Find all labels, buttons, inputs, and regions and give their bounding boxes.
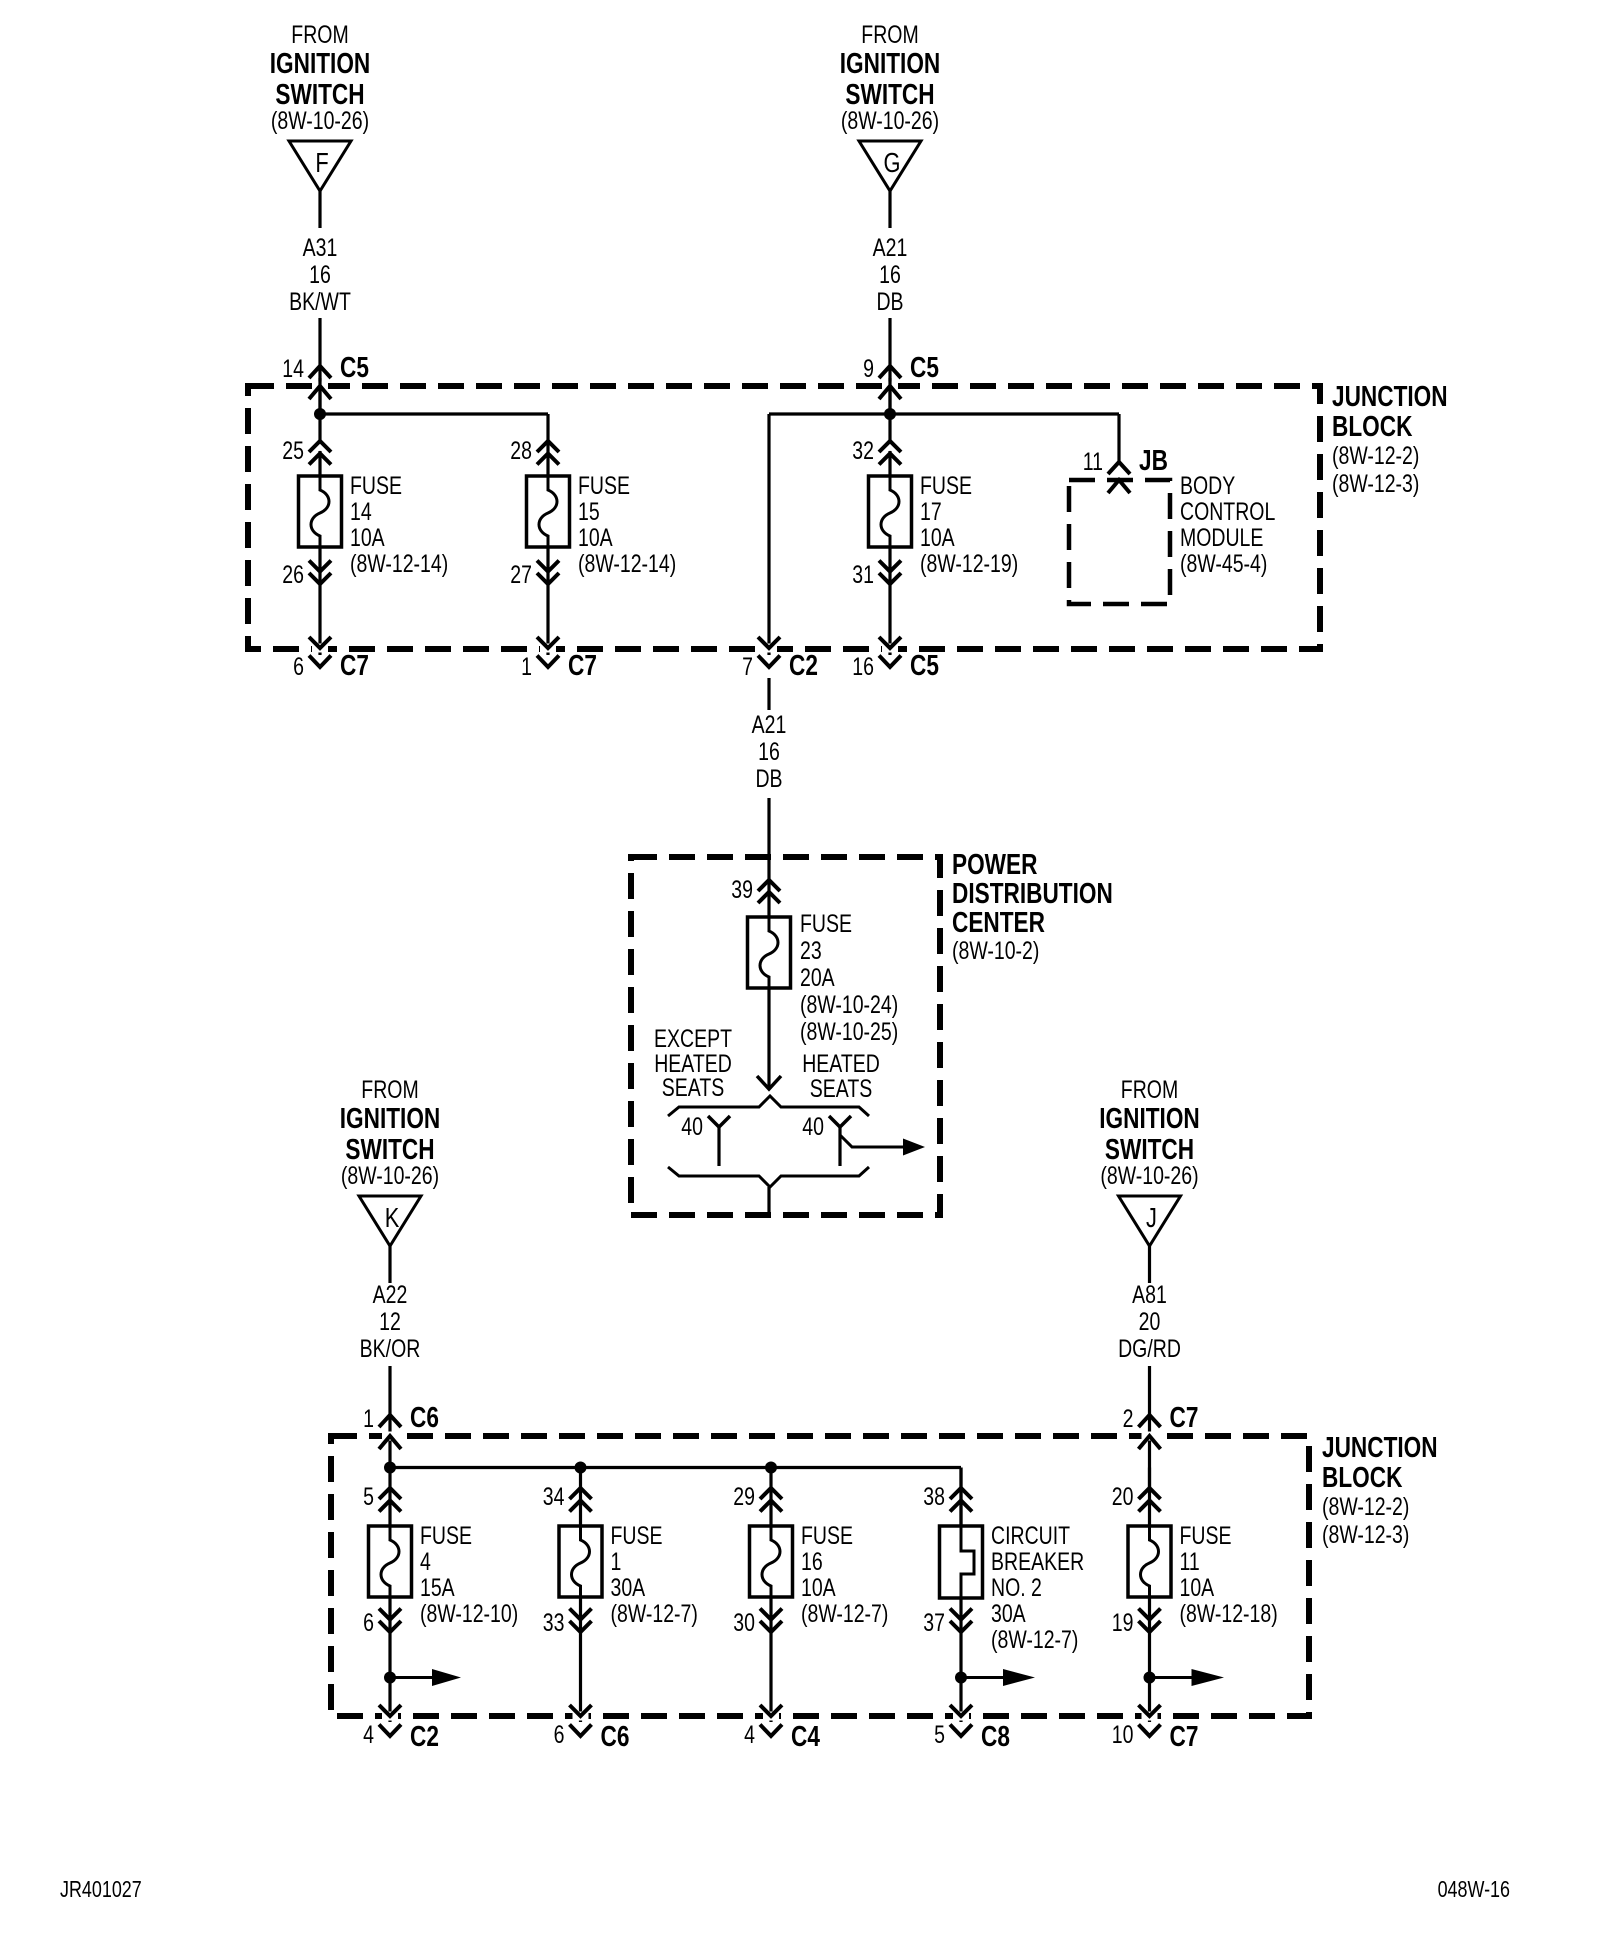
svg-text:(8W-10-26): (8W-10-26) bbox=[841, 107, 939, 135]
node with exit arrow bbox=[1144, 1669, 1225, 1686]
svg-text:15: 15 bbox=[578, 498, 600, 526]
svg-text:SEATS: SEATS bbox=[662, 1074, 724, 1102]
node at pin 14 bbox=[314, 408, 326, 420]
wire label A21 16 DB bbox=[873, 234, 908, 316]
svg-text:10: 10 bbox=[1112, 1721, 1134, 1749]
fuse 23 bbox=[748, 916, 791, 989]
svg-text:32: 32 bbox=[852, 437, 874, 465]
connector C7 pin 6 bbox=[293, 637, 369, 682]
svg-text:11: 11 bbox=[1180, 1548, 1200, 1576]
circuit breaker no. 2 label bbox=[991, 1522, 1084, 1654]
svg-text:C2: C2 bbox=[410, 1719, 439, 1752]
wire to exit bbox=[579, 1598, 582, 1722]
svg-text:17: 17 bbox=[920, 498, 942, 526]
brace lower bbox=[668, 1167, 869, 1187]
svg-text:(8W-12-3): (8W-12-3) bbox=[1322, 1521, 1409, 1549]
junction block (bottom) label bbox=[1322, 1430, 1438, 1548]
connector pin 19 bbox=[1112, 1609, 1161, 1637]
brace upper bbox=[668, 1096, 869, 1116]
svg-text:16: 16 bbox=[852, 653, 874, 681]
svg-text:JUNCTION: JUNCTION bbox=[1322, 1430, 1438, 1463]
connector pin 37 bbox=[923, 1609, 972, 1637]
svg-text:(8W-12-19): (8W-12-19) bbox=[920, 550, 1018, 578]
connector C8 pin 5 bbox=[934, 1705, 1010, 1753]
svg-text:C7: C7 bbox=[1170, 1400, 1199, 1433]
wire below C2 pin 7 bbox=[767, 678, 770, 710]
connector pin 40 (heated seats) bbox=[802, 1113, 851, 1166]
svg-text:5: 5 bbox=[934, 1721, 945, 1749]
wire bbox=[769, 1468, 772, 1528]
svg-text:(8W-12-18): (8W-12-18) bbox=[1180, 1600, 1278, 1628]
svg-text:IGNITION: IGNITION bbox=[340, 1101, 441, 1134]
svg-text:20: 20 bbox=[1139, 1308, 1161, 1336]
svg-text:(8W-12-10): (8W-12-10) bbox=[420, 1600, 518, 1628]
svg-text:IGNITION: IGNITION bbox=[1099, 1101, 1200, 1134]
svg-text:6: 6 bbox=[363, 1609, 374, 1637]
svg-text:(8W-10-26): (8W-10-26) bbox=[341, 1162, 439, 1190]
fuse 4 bbox=[369, 1525, 412, 1598]
svg-text:A31: A31 bbox=[303, 234, 338, 262]
svg-text:16: 16 bbox=[309, 261, 331, 289]
svg-text:NO. 2: NO. 2 bbox=[991, 1574, 1042, 1602]
fuse 15 label bbox=[578, 472, 676, 578]
svg-text:FUSE: FUSE bbox=[578, 472, 630, 500]
node with exit arrow bbox=[384, 1669, 461, 1686]
fuse 16 label bbox=[801, 1522, 888, 1628]
connector pin 32 bbox=[852, 437, 901, 465]
svg-text:FUSE: FUSE bbox=[420, 1522, 472, 1550]
svg-text:(8W-12-3): (8W-12-3) bbox=[1332, 470, 1419, 498]
svg-text:39: 39 bbox=[731, 876, 753, 904]
svg-text:BK/WT: BK/WT bbox=[289, 288, 351, 316]
wire to exit bbox=[1148, 1598, 1151, 1722]
junction block (bottom) dashed box bbox=[331, 1436, 1309, 1716]
wire bbox=[388, 1468, 391, 1528]
svg-text:4: 4 bbox=[744, 1721, 755, 1749]
svg-text:048W-16: 048W-16 bbox=[1438, 1877, 1510, 1903]
connector pin 27 bbox=[510, 561, 559, 589]
connector C6 pin 1 bbox=[363, 1400, 439, 1449]
svg-text:MODULE: MODULE bbox=[1180, 524, 1263, 552]
svg-text:CENTER: CENTER bbox=[952, 905, 1045, 938]
svg-text:C2: C2 bbox=[789, 648, 818, 681]
svg-text:SWITCH: SWITCH bbox=[275, 77, 364, 110]
svg-text:BODY: BODY bbox=[1180, 472, 1235, 500]
connector pin 28 bbox=[510, 437, 559, 465]
power distribution center label bbox=[952, 847, 1113, 964]
svg-text:28: 28 bbox=[510, 437, 532, 465]
svg-text:23: 23 bbox=[800, 937, 822, 965]
svg-text:6: 6 bbox=[554, 1721, 565, 1749]
svg-text:6: 6 bbox=[293, 653, 304, 681]
fuse 11 label bbox=[1180, 1522, 1278, 1628]
wire A21 into PDC bbox=[767, 798, 770, 918]
footer sheet number right bbox=[1438, 1877, 1510, 1903]
wire bus from pin 9 to C2 drop and BCM bbox=[769, 378, 1119, 655]
connector pin 29 bbox=[733, 1483, 782, 1512]
svg-text:37: 37 bbox=[923, 1609, 945, 1637]
svg-text:(8W-12-7): (8W-12-7) bbox=[611, 1600, 698, 1628]
connector C5 pin 9 bbox=[863, 350, 939, 399]
wire label A31 16 BK/WT bbox=[289, 234, 351, 316]
svg-text:29: 29 bbox=[733, 1483, 755, 1511]
footer sheet number left bbox=[60, 1877, 142, 1903]
svg-text:40: 40 bbox=[802, 1113, 824, 1141]
node with exit arrow bbox=[955, 1669, 1035, 1686]
circuit breaker no. 2 bbox=[940, 1525, 983, 1599]
fuse 1 bbox=[559, 1525, 602, 1598]
svg-text:16: 16 bbox=[879, 261, 901, 289]
svg-text:C6: C6 bbox=[410, 1400, 439, 1433]
svg-text:K: K bbox=[385, 1202, 400, 1233]
connector C7 pin 2 bbox=[1123, 1400, 1199, 1449]
junction block label bbox=[1332, 379, 1448, 497]
svg-text:(8W-10-2): (8W-10-2) bbox=[952, 937, 1039, 965]
connector pin 6 bbox=[363, 1609, 401, 1637]
connector pin 31 bbox=[852, 561, 901, 589]
svg-text:IGNITION: IGNITION bbox=[270, 46, 371, 79]
body control module dashed box bbox=[1069, 480, 1170, 604]
fuse 17 label bbox=[920, 472, 1018, 578]
svg-text:14: 14 bbox=[350, 498, 372, 526]
svg-text:C8: C8 bbox=[981, 1719, 1010, 1752]
wire label A22 12 BK/OR bbox=[360, 1281, 421, 1363]
header FROM IGNITION SWITCH (left, F) bbox=[270, 21, 371, 135]
svg-text:30: 30 bbox=[733, 1609, 755, 1637]
svg-text:11: 11 bbox=[1083, 448, 1103, 476]
connector triangle F bbox=[289, 141, 351, 191]
svg-text:JUNCTION: JUNCTION bbox=[1332, 379, 1448, 412]
connector pin 5 bbox=[363, 1483, 401, 1512]
svg-text:SEATS: SEATS bbox=[810, 1075, 872, 1103]
fuse 11 bbox=[1128, 1525, 1171, 1598]
label HEATED SEATS bbox=[802, 1050, 880, 1103]
wire with down arrow bbox=[757, 988, 781, 1089]
svg-text:BLOCK: BLOCK bbox=[1332, 409, 1413, 442]
svg-text:SWITCH: SWITCH bbox=[845, 77, 934, 110]
wire label A81 20 DG/RD bbox=[1118, 1281, 1181, 1363]
header FROM IGNITION SWITCH (bottom left, K) bbox=[340, 1076, 441, 1190]
svg-text:SWITCH: SWITCH bbox=[345, 1132, 434, 1165]
wire bus from pin 14 to fuse 15 bbox=[320, 378, 548, 477]
connector triangle K bbox=[359, 1196, 421, 1246]
svg-text:FUSE: FUSE bbox=[920, 472, 972, 500]
svg-text:JR401027: JR401027 bbox=[60, 1877, 142, 1903]
svg-text:2: 2 bbox=[1123, 1405, 1134, 1433]
connector C2 pin 7 (exit) bbox=[742, 637, 818, 682]
fuse 23 label bbox=[800, 910, 898, 1046]
connector pin 30 bbox=[733, 1609, 782, 1637]
connector pin 20 bbox=[1112, 1483, 1161, 1512]
wire bbox=[1148, 1468, 1151, 1528]
connector pin 34 bbox=[543, 1483, 592, 1512]
svg-text:9: 9 bbox=[863, 355, 874, 383]
wire from J bbox=[1148, 1246, 1151, 1283]
svg-text:C4: C4 bbox=[791, 1719, 820, 1752]
svg-text:HEATED: HEATED bbox=[802, 1050, 880, 1078]
svg-text:DB: DB bbox=[876, 288, 903, 316]
svg-text:(8W-12-14): (8W-12-14) bbox=[578, 550, 676, 578]
wire from K bbox=[388, 1246, 391, 1283]
connector C2 pin 4 bbox=[363, 1705, 439, 1753]
svg-text:FROM: FROM bbox=[291, 21, 348, 49]
header FROM IGNITION SWITCH (bottom right, J) bbox=[1099, 1076, 1200, 1190]
wire A21 to junction block bbox=[888, 318, 891, 414]
connector C6 pin 6 bbox=[554, 1705, 630, 1753]
wire to C5 pin 16 bbox=[888, 547, 891, 655]
svg-text:A21: A21 bbox=[752, 711, 787, 739]
svg-text:(8W-12-2): (8W-12-2) bbox=[1322, 1493, 1409, 1521]
fuse 17 bbox=[869, 475, 912, 548]
svg-text:FUSE: FUSE bbox=[800, 910, 852, 938]
svg-text:(8W-10-24): (8W-10-24) bbox=[800, 991, 898, 1019]
svg-text:DG/RD: DG/RD bbox=[1118, 1335, 1181, 1363]
svg-text:CIRCUIT: CIRCUIT bbox=[991, 1522, 1070, 1550]
svg-text:FUSE: FUSE bbox=[350, 472, 402, 500]
connector pin 39 bbox=[731, 876, 780, 904]
svg-text:J: J bbox=[1146, 1202, 1157, 1233]
svg-text:27: 27 bbox=[510, 561, 532, 589]
svg-text:16: 16 bbox=[801, 1548, 823, 1576]
svg-text:C6: C6 bbox=[601, 1719, 630, 1752]
node at fuse 16 branch bbox=[765, 1462, 777, 1474]
svg-text:(8W-12-2): (8W-12-2) bbox=[1332, 442, 1419, 470]
svg-text:A21: A21 bbox=[873, 234, 908, 262]
wire bus (bottom) bbox=[390, 1468, 961, 1528]
wire to C7 pin 6 bbox=[318, 547, 321, 655]
svg-text:19: 19 bbox=[1112, 1609, 1134, 1637]
svg-text:5: 5 bbox=[363, 1483, 374, 1511]
svg-text:C7: C7 bbox=[1170, 1719, 1199, 1752]
svg-text:C7: C7 bbox=[340, 648, 369, 681]
svg-text:F: F bbox=[315, 147, 328, 178]
node at pin 9 bbox=[884, 408, 896, 420]
wire from F bbox=[318, 191, 321, 228]
connector JB pin 11 bbox=[1083, 443, 1168, 493]
connector pin 38 bbox=[923, 1483, 972, 1512]
svg-text:(8W-45-4): (8W-45-4) bbox=[1180, 550, 1267, 578]
svg-text:1: 1 bbox=[521, 653, 532, 681]
svg-text:(8W-10-26): (8W-10-26) bbox=[1100, 1162, 1198, 1190]
wire from G bbox=[888, 191, 891, 228]
svg-text:30A: 30A bbox=[991, 1600, 1026, 1628]
svg-text:26: 26 bbox=[282, 561, 304, 589]
svg-text:(8W-12-7): (8W-12-7) bbox=[991, 1626, 1078, 1654]
svg-text:1: 1 bbox=[363, 1405, 374, 1433]
svg-text:FUSE: FUSE bbox=[801, 1522, 853, 1550]
connector C5 pin 14 bbox=[282, 350, 369, 399]
wire label A21 16 DB (middle) bbox=[752, 711, 787, 793]
connector pin 25 bbox=[282, 437, 331, 465]
fuse 4 label bbox=[420, 1522, 518, 1628]
power distribution center dashed box bbox=[631, 857, 940, 1215]
wire bbox=[959, 1468, 962, 1528]
wire to exit bbox=[769, 1598, 772, 1722]
connector pin 33 bbox=[543, 1609, 592, 1637]
wire below brace bbox=[767, 1187, 770, 1216]
fuse 14 label bbox=[350, 472, 448, 578]
svg-text:14: 14 bbox=[282, 355, 304, 383]
connector C7 pin 10 bbox=[1112, 1705, 1199, 1753]
svg-text:10A: 10A bbox=[1180, 1574, 1215, 1602]
connector triangle G bbox=[859, 141, 921, 191]
svg-text:G: G bbox=[884, 147, 901, 178]
svg-text:(8W-12-7): (8W-12-7) bbox=[801, 1600, 888, 1628]
svg-text:C5: C5 bbox=[910, 648, 939, 681]
wire to exit bbox=[959, 1598, 962, 1722]
svg-text:SWITCH: SWITCH bbox=[1105, 1132, 1194, 1165]
svg-text:15A: 15A bbox=[420, 1574, 455, 1602]
svg-text:4: 4 bbox=[363, 1721, 374, 1749]
svg-text:FROM: FROM bbox=[861, 21, 918, 49]
svg-text:A81: A81 bbox=[1132, 1281, 1167, 1309]
svg-text:12: 12 bbox=[379, 1308, 401, 1336]
wire A81 to junction block bbox=[1148, 1366, 1151, 1489]
svg-text:10A: 10A bbox=[801, 1574, 836, 1602]
svg-text:BLOCK: BLOCK bbox=[1322, 1460, 1403, 1493]
header FROM IGNITION SWITCH (right, G) bbox=[840, 21, 941, 135]
svg-text:FROM: FROM bbox=[1121, 1076, 1178, 1104]
junction block (top) dashed box bbox=[248, 386, 1320, 649]
svg-text:33: 33 bbox=[543, 1609, 565, 1637]
svg-text:34: 34 bbox=[543, 1483, 565, 1511]
svg-text:EXCEPT: EXCEPT bbox=[654, 1025, 732, 1053]
svg-text:10A: 10A bbox=[920, 524, 955, 552]
svg-text:CONTROL: CONTROL bbox=[1180, 498, 1275, 526]
svg-text:FUSE: FUSE bbox=[1180, 1522, 1232, 1550]
svg-text:C7: C7 bbox=[568, 648, 597, 681]
svg-text:10A: 10A bbox=[578, 524, 613, 552]
connector pin 40 (except heated seats) bbox=[681, 1113, 730, 1166]
svg-text:IGNITION: IGNITION bbox=[840, 46, 941, 79]
svg-text:38: 38 bbox=[923, 1483, 945, 1511]
wire bbox=[579, 1468, 582, 1528]
wire bbox=[318, 451, 321, 477]
fuse 15 bbox=[527, 475, 570, 548]
wire A22 to junction block bbox=[388, 1366, 391, 1467]
svg-text:40: 40 bbox=[681, 1113, 703, 1141]
connector C7 pin 1 bbox=[521, 637, 597, 682]
svg-text:(8W-10-26): (8W-10-26) bbox=[271, 107, 369, 135]
svg-text:BREAKER: BREAKER bbox=[991, 1548, 1084, 1576]
svg-text:20A: 20A bbox=[800, 964, 835, 992]
wire bbox=[888, 451, 891, 477]
svg-text:FUSE: FUSE bbox=[611, 1522, 663, 1550]
connector triangle J bbox=[1119, 1196, 1181, 1246]
svg-text:BK/OR: BK/OR bbox=[360, 1335, 421, 1363]
svg-text:25: 25 bbox=[282, 437, 304, 465]
svg-text:10A: 10A bbox=[350, 524, 385, 552]
svg-text:4: 4 bbox=[420, 1548, 431, 1576]
body control module label bbox=[1180, 472, 1275, 578]
connector C4 pin 4 bbox=[744, 1705, 820, 1753]
fuse 16 bbox=[750, 1525, 793, 1598]
connector pin 26 bbox=[282, 561, 331, 589]
wire A31 to junction block bbox=[318, 318, 321, 414]
svg-text:(8W-10-25): (8W-10-25) bbox=[800, 1018, 898, 1046]
connector C5 pin 16 bbox=[852, 637, 939, 682]
svg-text:(8W-12-14): (8W-12-14) bbox=[350, 550, 448, 578]
svg-text:A22: A22 bbox=[373, 1281, 408, 1309]
svg-text:30A: 30A bbox=[611, 1574, 646, 1602]
svg-text:20: 20 bbox=[1112, 1483, 1134, 1511]
svg-text:7: 7 bbox=[742, 653, 753, 681]
svg-text:31: 31 bbox=[852, 561, 874, 589]
fuse 1 label bbox=[611, 1522, 698, 1628]
wire to exit bbox=[388, 1598, 391, 1722]
wire to C7 pin 1 bbox=[546, 547, 549, 655]
wire jog to arrow (heated seats) bbox=[840, 1135, 925, 1156]
svg-text:1: 1 bbox=[611, 1548, 622, 1576]
node at C6 pin 1 bbox=[384, 1462, 396, 1474]
svg-text:DB: DB bbox=[755, 765, 782, 793]
svg-text:C5: C5 bbox=[340, 350, 369, 383]
fuse 14 bbox=[299, 475, 342, 548]
label EXCEPT HEATED SEATS bbox=[654, 1025, 732, 1102]
svg-text:C5: C5 bbox=[910, 350, 939, 383]
node at fuse 1 branch bbox=[575, 1462, 587, 1474]
svg-text:JB: JB bbox=[1139, 443, 1168, 476]
svg-text:16: 16 bbox=[758, 738, 780, 766]
svg-text:FROM: FROM bbox=[361, 1076, 418, 1104]
